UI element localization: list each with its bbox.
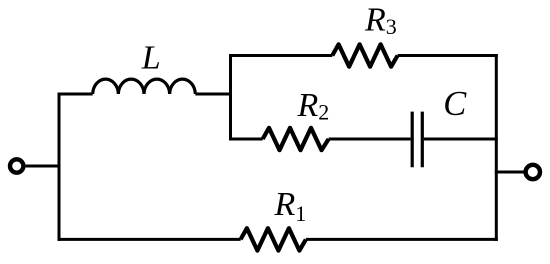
- wire bottom branch right: [306, 238, 498, 241]
- wire right vertical: [495, 54, 498, 241]
- wire right terminal lead: [495, 171, 524, 174]
- wire R2 branch left: [229, 138, 263, 141]
- wire bottom branch left: [58, 238, 241, 241]
- svg-text:C: C: [443, 85, 467, 123]
- wire inductor to middle vertical: [195, 93, 230, 96]
- wire capacitor to right vertical: [424, 138, 498, 141]
- wire R2 to capacitor: [329, 138, 411, 141]
- wire left terminal to left vertical: [26, 165, 61, 168]
- wire R3 branch left: [229, 54, 332, 57]
- wire R3 branch right: [398, 54, 498, 57]
- svg-text:R1: R1: [274, 186, 307, 226]
- wire left vertical: [58, 93, 61, 241]
- svg-text:R2: R2: [297, 87, 330, 125]
- resistor R1: [241, 228, 306, 250]
- capacitor C: [412, 112, 422, 168]
- wire middle vertical junction: [229, 54, 232, 141]
- svg-text:R3: R3: [364, 1, 397, 39]
- svg-text:L: L: [141, 39, 161, 76]
- left terminal: [10, 159, 23, 172]
- wire top-left branch to inductor: [58, 93, 93, 96]
- inductor L: [93, 79, 196, 94]
- right terminal: [526, 165, 540, 179]
- resistor R3: [332, 44, 397, 66]
- resistor R2: [263, 128, 329, 150]
